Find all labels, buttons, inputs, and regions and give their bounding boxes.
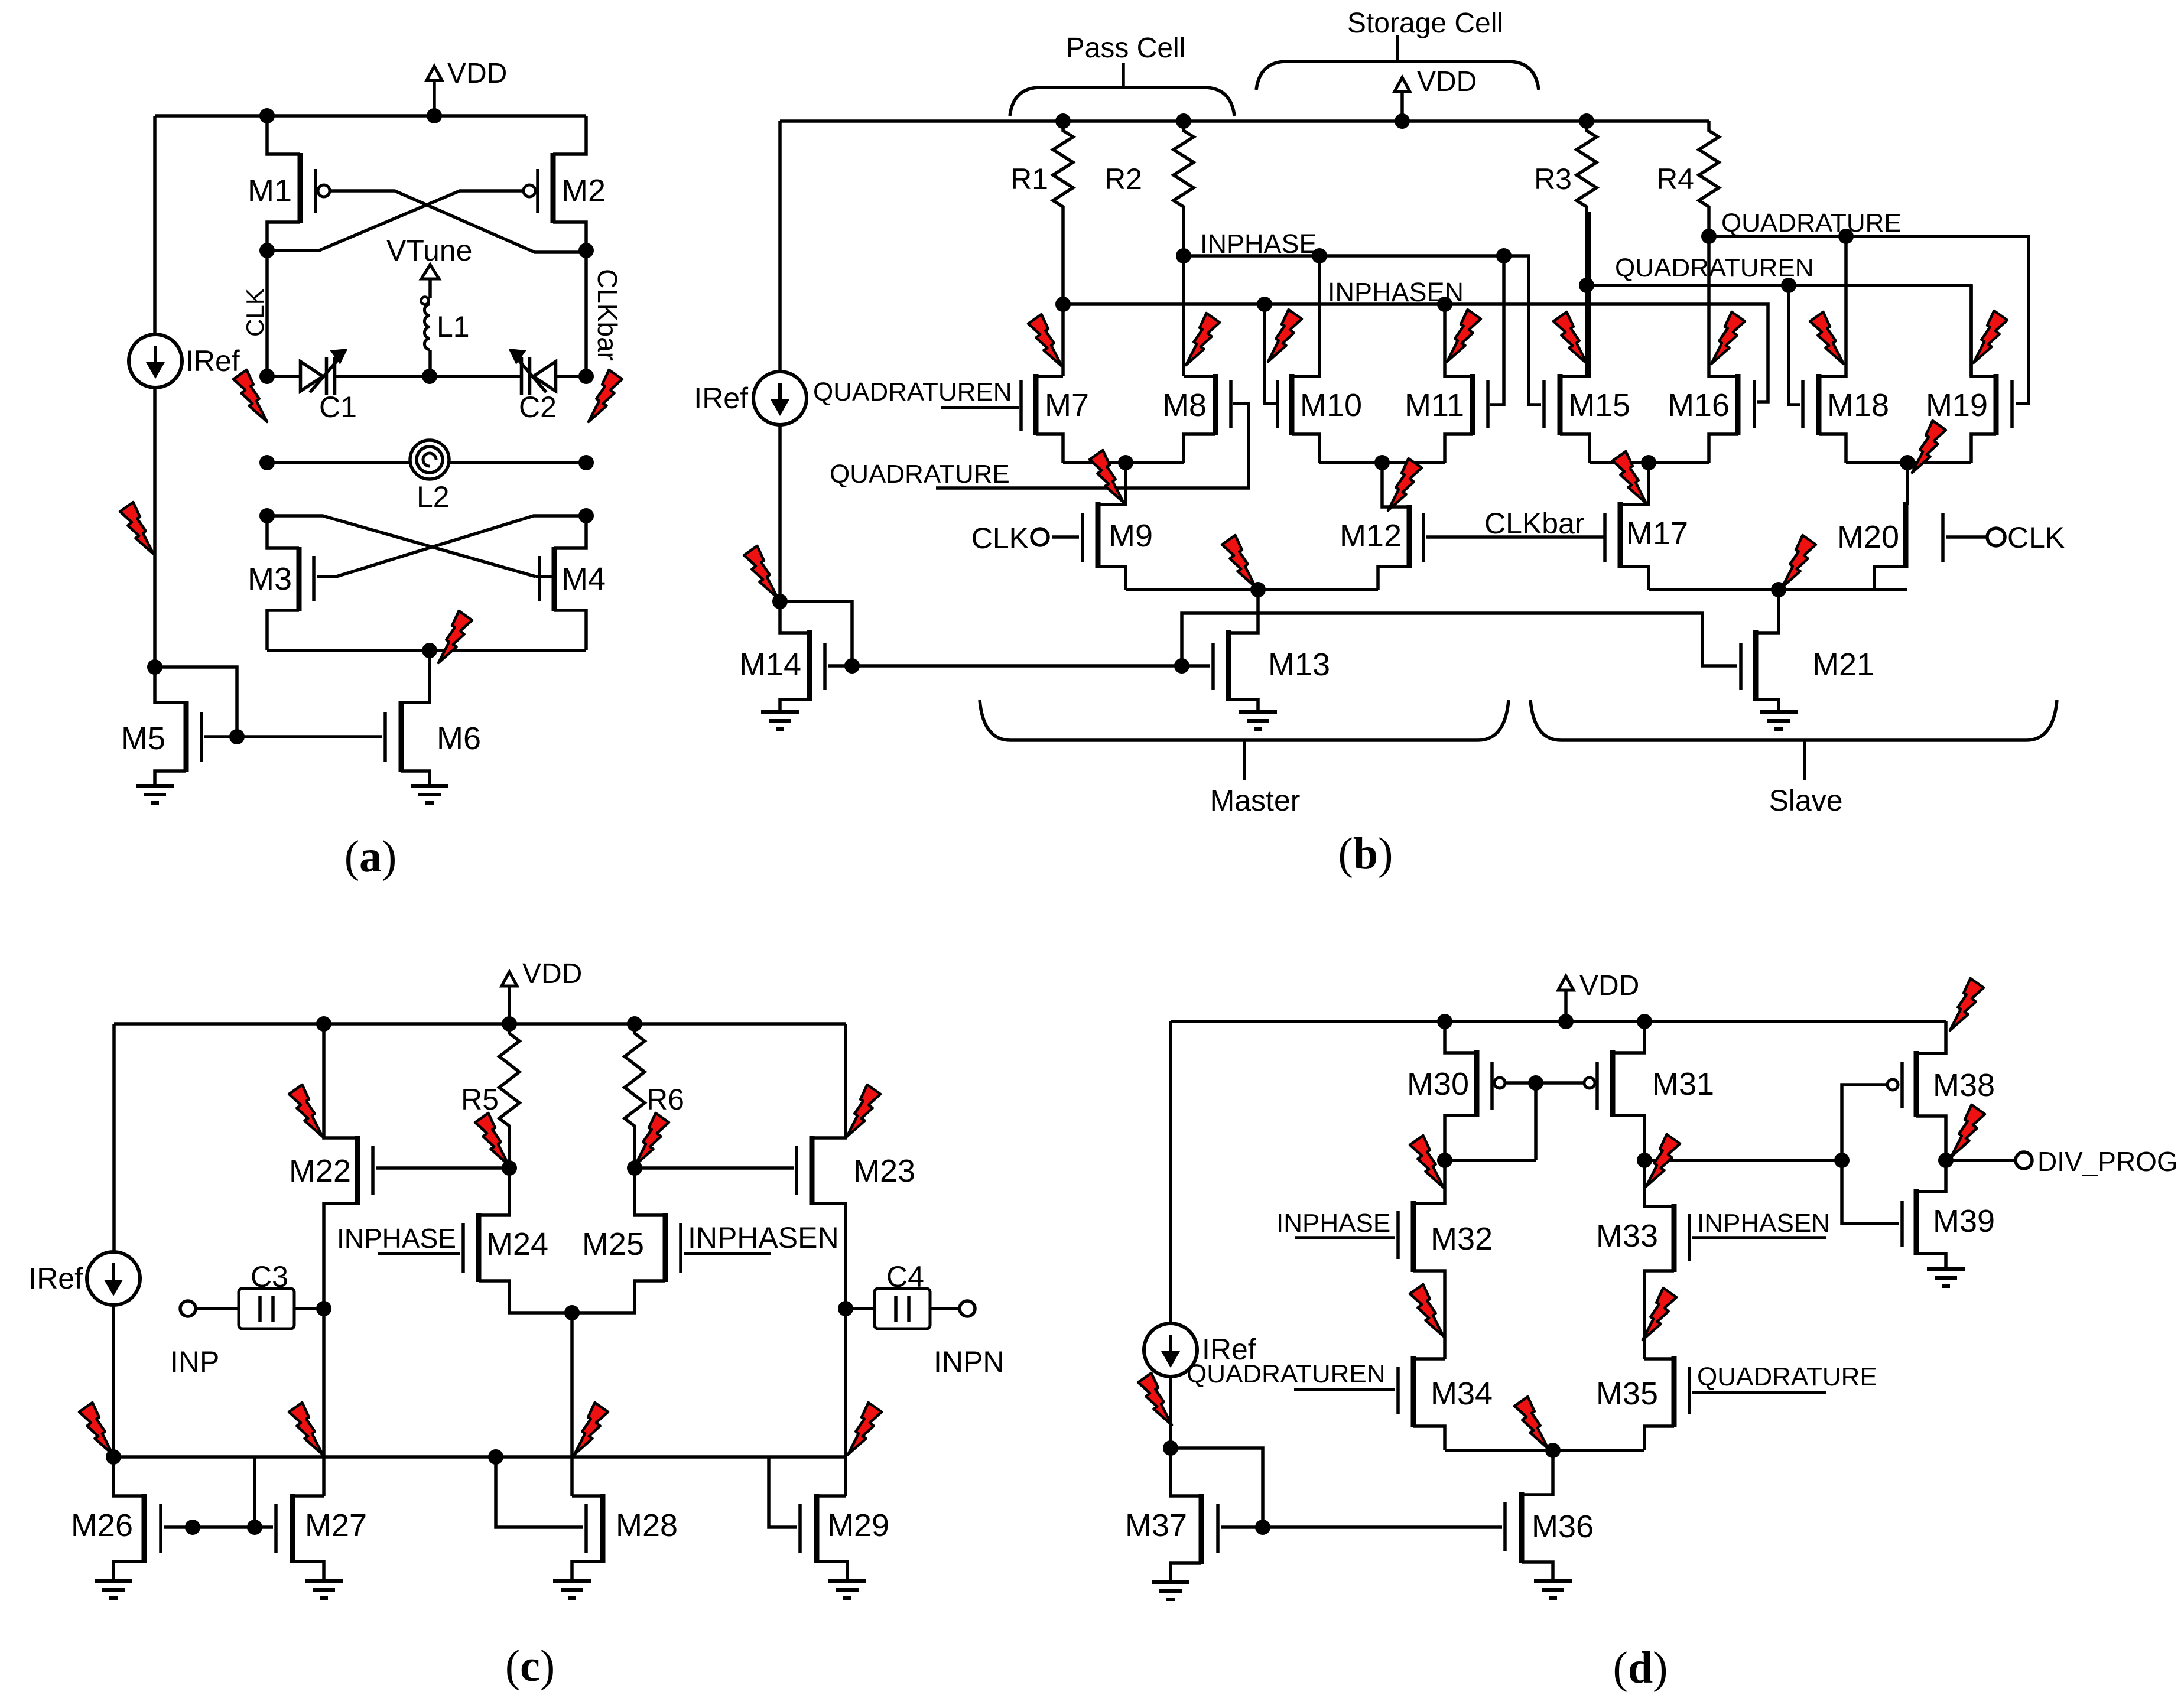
transistor M24 [463,1168,572,1313]
junction: QUADRATURE/M18 drain [1838,229,1854,244]
junction: rail/R3 [1579,113,1594,129]
svg-text:M16: M16 [1668,388,1730,423]
wire: C4 to INPN [930,1307,960,1310]
svg-text:M8: M8 [1162,388,1207,423]
strike rail end (d) [1950,978,1984,1030]
wire: gate riser (c) [253,1457,256,1527]
strike node A [1410,1136,1444,1188]
strike M11 drain [1447,310,1481,362]
net label CLKbar [1484,507,1585,540]
svg-text:M23: M23 [853,1153,915,1189]
inductor L1 [421,297,470,377]
svg-text:M18: M18 [1827,388,1889,423]
strike M13 node [1222,535,1256,587]
caption Pass Cell [1066,32,1186,64]
transistor M25 [572,1168,681,1313]
svg-text:(d): (d) [1613,1643,1668,1693]
wire: tail M18/M19 [1846,461,1971,464]
wire: M5-M6 gate wire [204,735,382,738]
node: PMOS gates (d) [1528,1075,1543,1091]
net label QUADRATUREN (d) [1187,1359,1386,1388]
svg-text:Slave: Slave [1769,784,1842,817]
wire: VDD rail (c) [114,1022,846,1026]
gate bar M8 [1229,380,1233,428]
svg-text:M19: M19 [1926,388,1988,423]
gate bar M7 [1019,380,1023,431]
strike M27 drain [289,1403,323,1455]
svg-text:M22: M22 [289,1153,351,1189]
node: M22 source / C3 [316,1301,331,1316]
transistor M36 [1505,1450,1594,1581]
section (c) buffer [0,0,1,1]
wire: R4 to QUADRATURE node [1707,212,1711,236]
svg-text:VTune: VTune [386,234,472,267]
svg-text:(b): (b) [1338,829,1393,879]
port label INPN [934,1345,1004,1378]
wire: QUADRATURE underline (d) [1692,1391,1826,1394]
svg-text:M5: M5 [121,721,165,756]
net label INPHASE (c) [337,1223,456,1254]
transistor M19 [1926,285,1996,463]
junction: center tank (a) [422,369,437,384]
strike master pass tail [1090,450,1123,502]
svg-text:QUADRATUREN: QUADRATUREN [813,378,1012,406]
brace Pass Cell [1010,63,1234,116]
transistor M6 (NMOS tail) [385,650,481,786]
transistor M33 [1596,1160,1689,1359]
net label CLK (a) [241,288,269,337]
wire: IRef stem (b) [778,121,782,372]
node: M4 drain (a) [578,508,594,523]
wire: IRef to M37 (d) [1169,1376,1172,1448]
strike slave pass tail [1613,451,1646,503]
svg-text:VDD: VDD [1579,970,1639,1001]
resistor R1 [1010,126,1073,212]
strike M19 drain [1974,311,2007,363]
svg-text:M17: M17 [1626,516,1688,551]
wire: INPHASEN underline (d) [1692,1236,1826,1239]
caption (d) [1613,1643,1668,1693]
strike node B [1646,1134,1680,1186]
wire: M4 gate cross [536,575,554,578]
section (b) divider [0,0,1,1]
strike M23 drain [847,1085,880,1137]
net label INPHASE (d) [1276,1209,1390,1238]
wire: QUADRATUREN underline (d) [1294,1388,1395,1391]
junction: INPHASEN/R1 [1055,297,1071,312]
svg-text:M12: M12 [1340,518,1402,554]
strike M33/M35 link [1643,1288,1676,1340]
gate bar M11 [1488,256,1504,428]
svg-text:M9: M9 [1109,518,1153,554]
node: mirror/IRef (c) [106,1449,121,1465]
transistor M27 [276,1494,367,1581]
junction: rail/R1 [1055,113,1071,129]
resistor R4 [1656,126,1719,212]
transistor M38 (PMOS) [1887,1021,1995,1160]
svg-text:IRef: IRef [28,1262,83,1295]
node: M13 gate [1174,658,1189,674]
node: master storage tail [1374,455,1390,470]
radiation strike on CLK node (a) [233,370,267,422]
net label INPHASE [1200,229,1317,259]
caption Master [1210,784,1301,817]
wire: R2 to M8 drain [1182,212,1185,376]
transistor M26 [71,1457,161,1581]
node: mirror/M28 gate [488,1449,503,1465]
port INP [180,1301,196,1316]
svg-text:CLK: CLK [971,522,1029,555]
caption Slave [1769,784,1842,817]
wire: M30-M31 gates [1505,1081,1584,1085]
transistor M29 [769,1457,889,1581]
caption (a) [344,832,397,881]
svg-text:M34: M34 [1431,1376,1493,1411]
svg-text:M38: M38 [1933,1068,1995,1103]
node: inverter input tap [1834,1153,1850,1168]
junction: QUADRATUREN/M18 gate [1781,278,1796,293]
wire: stack tail (d) [1445,1449,1644,1452]
strike M32/M34 link [1410,1284,1444,1336]
svg-text:CLK: CLK [2007,521,2065,554]
junction: rail/M31 [1637,1014,1652,1029]
junction: rail/CLK-branch (a) [259,108,275,123]
svg-text:M15: M15 [1568,388,1630,423]
strike M36 drain [1514,1397,1548,1449]
svg-text:C1: C1 [319,391,357,424]
svg-text:L2: L2 [417,480,450,513]
power VDD (a) [427,58,507,116]
wire: VDD rail (b) [780,119,1709,123]
resistor R5 [461,1029,519,1131]
radiation strike on IRef branch (a) [120,502,154,554]
svg-text:(a): (a) [344,832,397,881]
ground M6 [411,786,448,803]
wire: node to C4 [846,1307,875,1310]
strike M22 drain [289,1085,323,1137]
svg-text:M26: M26 [71,1508,133,1543]
wire: VDD rail (a) [155,114,586,118]
gate bar M10 [1265,304,1278,428]
junction: rail/R2 [1176,113,1191,129]
wire: IRef stem (d) [1169,1021,1172,1324]
transistor M4 (NMOS) [539,516,606,650]
section (d) output stage [0,0,1,1]
node CLKbar (a) [578,243,594,258]
svg-text:VDD: VDD [522,958,582,990]
junction: rail/VDD (b) [1395,113,1410,129]
svg-text:INPHASE: INPHASE [337,1223,456,1254]
brace Storage Cell [1256,35,1539,90]
wire: node A [1445,1159,1536,1162]
port bubble CLK (slave) [1987,528,2005,546]
transistor M13 [1185,590,1330,712]
transistor M5 (NMOS diode) [121,667,201,786]
resistor R3 [1534,126,1597,212]
ground M27 [305,1581,343,1598]
svg-text:M28: M28 [616,1508,678,1543]
transistor M17 [1602,463,1688,590]
ground M37 [1152,1582,1189,1599]
strike R6 [635,1113,669,1165]
wire: M37-M36 gate wire [1221,1525,1502,1529]
net label INPHASEN (d) [1697,1209,1830,1238]
svg-text:M29: M29 [827,1508,889,1543]
net QUADRATURE row [1709,236,2029,404]
svg-text:M7: M7 [1045,388,1089,423]
net label QUADRATURE (master) [830,460,1010,489]
svg-text:VDD: VDD [1417,66,1477,97]
svg-text:M33: M33 [1596,1218,1658,1254]
port label DIV_PROG [2037,1146,2178,1177]
svg-text:M24: M24 [486,1226,548,1262]
transistor M18 [1819,236,1889,463]
node A (M30 drain) [1437,1153,1452,1168]
wire: tail to M28 drain [570,1313,574,1496]
svg-text:R6: R6 [646,1083,684,1116]
transistor M15 [1560,212,1630,463]
wire: QUADRATURE to M8 gate [936,404,1249,488]
wire: inverter gate loop [1842,1085,1899,1224]
gate bar M16 [1753,380,1756,428]
net label INPHASEN [1328,277,1464,307]
wire: R5 node stub [508,1131,511,1168]
svg-text:M4: M4 [561,561,606,597]
ground M39 [1927,1269,1965,1286]
svg-text:R3: R3 [1534,162,1572,196]
label IRef (c) [28,1262,83,1295]
ground M5 [136,786,174,803]
wire: IRef branch upper (a) [153,116,157,334]
svg-text:M30: M30 [1407,1066,1469,1102]
node: M37 drain/diode [1163,1440,1178,1456]
svg-text:M11: M11 [1405,388,1464,423]
wire: master tail rail [1126,588,1378,591]
wire: R3 to M15 drain [1585,212,1588,376]
svg-text:M6: M6 [437,721,481,756]
node: mirror gates (a) [229,729,245,744]
wire: INPHASE underline to M24 gate [378,1252,460,1255]
wire: M37 diode connection [1171,1448,1263,1527]
net INPHASEN row [1063,304,1768,402]
wire: tail M15/M16 [1590,461,1709,464]
wire: IRef to M14 (b) [778,425,782,601]
strike master storage tail [1388,458,1422,510]
net label VTune [386,234,472,267]
port label CLK (master) [971,522,1029,555]
svg-text:QUADRATURE: QUADRATURE [830,460,1010,489]
wire: gates to node A [1534,1083,1538,1160]
port DIV_PROG [2016,1152,2032,1169]
svg-text:R1: R1 [1010,162,1048,196]
net CLKbar gate wire [1426,535,1602,539]
net label QUADRATUREN (master) [813,378,1012,406]
svg-text:M36: M36 [1532,1509,1594,1544]
wire: C3 to node [294,1307,324,1310]
junction: CLK/C1 (a) [259,369,275,384]
svg-text:C3: C3 [251,1260,288,1293]
svg-text:M39: M39 [1933,1203,1995,1239]
svg-text:INPHASEN: INPHASEN [688,1221,839,1254]
node: M36 drain [1545,1443,1561,1458]
node: slave storage tail [1900,455,1915,470]
net INPHASE row [1184,256,1541,405]
net label QUADRATURE (slave) [1721,209,1902,238]
svg-text:R2: R2 [1104,162,1142,196]
svg-text:INPHASE: INPHASE [1200,229,1317,259]
varactor C2 [430,349,586,395]
brace Slave [1530,700,2057,780]
port label CLK (slave) [2007,521,2065,554]
strike M21 node [1782,535,1816,587]
node CLK (a) [259,243,275,258]
resistor R6 [625,1029,684,1131]
svg-text:C2: C2 [519,391,557,424]
transistor M9 [1052,463,1153,590]
wire: tail M7/M8 [1063,461,1184,464]
wire: gate distribution to M21 [1182,613,1737,666]
svg-text:QUADRATUREN: QUADRATUREN [1615,253,1814,282]
junction: CLK/L2 [259,455,275,470]
net label QUADRATUREN (slave) [1615,253,1814,282]
svg-text:M21: M21 [1812,647,1874,682]
port bubble CLK (master) [1032,529,1048,545]
strike M7 drain [1028,314,1062,366]
wire: mirror row (c) [113,1455,846,1459]
svg-text:INPHASEN: INPHASEN [1697,1209,1830,1238]
junction: rail/M22 [316,1016,331,1032]
wire: C4 node to M29 drain [844,1309,847,1496]
svg-text:M32: M32 [1431,1221,1493,1257]
transistor M21 [1741,590,1874,712]
node B (M31 drain) [1637,1153,1652,1168]
net QUADRATUREN row [1587,285,1971,376]
wire: IRef to mirror (c) [112,1304,115,1457]
caption (b) [1338,829,1393,879]
svg-text:R4: R4 [1656,162,1694,196]
node: M14 gate [844,658,860,674]
junction: rail/R6 [627,1016,642,1032]
wire: IRef branch lower (a) [153,388,157,667]
strike M15 drain [1553,312,1587,364]
wire: R1 to M7 drain [1061,212,1065,376]
svg-text:M37: M37 [1125,1508,1187,1543]
strike M10 gate [1268,310,1302,362]
port label INP [170,1345,219,1378]
node: M23 source / C4 [838,1301,853,1316]
junction: CLKbar/C2 (a) [578,369,594,384]
transistor M20 [1837,463,1987,590]
brace Master [980,700,1509,780]
svg-text:Pass Cell: Pass Cell [1066,32,1186,64]
svg-text:M3: M3 [248,561,292,597]
gate bar M15 [1542,380,1546,428]
node: tail (a) [422,643,437,658]
wire: C3 node to M27 drain [322,1309,326,1496]
junction: QUADRATUREN/R3 [1579,278,1594,293]
svg-text:M13: M13 [1268,647,1330,682]
transistor M3 (NMOS) [248,516,314,650]
junction: rail/VDD (d) [1558,1014,1574,1029]
node: M3 drain (a) [259,508,275,523]
node: gate wire a (c) [185,1520,200,1535]
ground M28 [553,1581,591,1598]
ground M14 [761,712,799,729]
svg-text:INP: INP [170,1345,219,1378]
svg-text:(c): (c) [505,1641,555,1691]
transistor M30 (PMOS) [1407,1021,1505,1160]
node: M5 drain/diode (a) [147,659,162,675]
node: M21 drain [1771,582,1786,597]
svg-text:Storage Cell: Storage Cell [1347,8,1503,39]
svg-text:DIV_PROG: DIV_PROG [2037,1146,2178,1177]
section (a) oscillator [0,0,1,1]
svg-text:INPN: INPN [934,1345,1004,1378]
svg-text:INPHASE: INPHASE [1276,1209,1390,1238]
transistor M39 (NMOS) [1902,1160,1995,1269]
gate bar M19 [2010,380,2014,428]
svg-text:CLKbar: CLKbar [1484,507,1585,540]
wire: INPHASE underline (d) [1295,1236,1395,1239]
ground M26 [95,1581,132,1598]
node: R6 bottom [627,1160,642,1176]
ground M21 [1760,712,1798,729]
wire: QUADRATUREN underline to M7 gate [941,406,1019,409]
junction: rail/M30 [1437,1014,1452,1029]
transistor M14 [739,601,1182,712]
wire: M1 gate to CLKbar node [330,191,586,252]
wire: INP to C3 [196,1307,239,1310]
junction: rail/VDD stem (a) [427,108,442,123]
node: M24/M25 tail [564,1305,580,1320]
wire: node to M4 gate cross [267,516,536,577]
junction: rail/R5+VDD [502,1016,517,1032]
ground M29 [828,1581,866,1598]
strike R5 [475,1113,509,1165]
strike M14 node [744,546,778,598]
wire: M14 diode connection [780,601,852,666]
label C2 [519,391,557,424]
power VDD (c) [502,958,582,1024]
svg-text:M20: M20 [1837,519,1899,555]
node: gate wire b (c) [247,1520,262,1535]
svg-text:L1: L1 [437,310,470,343]
svg-text:C4: C4 [886,1260,924,1293]
strike inverter output [1951,1105,1985,1157]
svg-text:INPHASEN: INPHASEN [1328,277,1464,307]
wire: L2 row (a) [267,461,586,464]
radiation strike on tail node (a) [438,611,472,663]
wire: slave tail rail [1649,588,1874,591]
node: M13 drain [1250,582,1266,597]
transistor M12 [1340,463,1423,590]
junction: CLKbar/L2 [578,455,594,470]
junction: INPHASE/M11 gate [1496,248,1512,263]
transistor M2 (PMOS) [524,116,606,250]
transistor M1 (PMOS) [248,116,330,250]
svg-text:M27: M27 [305,1508,367,1543]
caption Storage Cell [1347,8,1503,39]
transistor M28 [496,1457,678,1581]
svg-text:CLKbar: CLKbar [592,269,623,361]
svg-text:M14: M14 [739,647,801,682]
port INPN [960,1301,975,1316]
power VDD (b) [1395,66,1477,121]
svg-text:IRef: IRef [186,344,240,378]
transistor M11 [1405,304,1473,463]
node: slave pass tail [1641,455,1656,470]
svg-text:QUADRATURE: QUADRATURE [1697,1362,1877,1391]
